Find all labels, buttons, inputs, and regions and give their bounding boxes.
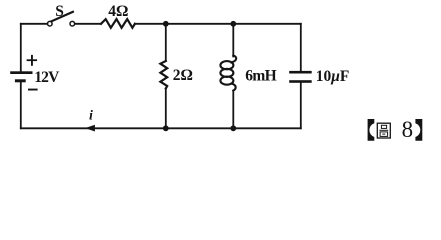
inductor L1 6mH coil bbox=[231, 56, 236, 63]
svg-text:i: i bbox=[89, 109, 93, 124]
capacitor C1 top plate bbox=[289, 71, 312, 74]
svg-text:4Ω: 4Ω bbox=[108, 3, 128, 20]
battery bottom plate (-) bbox=[15, 79, 26, 82]
figure label glyph tu (picture) bbox=[377, 123, 390, 138]
capacitor C1 bottom plate bbox=[289, 80, 312, 83]
svg-text:12V: 12V bbox=[34, 69, 60, 86]
wire branch 2ohm upper bbox=[165, 24, 167, 61]
wire left vertical upper (to battery) bbox=[20, 24, 22, 72]
switch S circles bbox=[48, 21, 53, 26]
svg-text:8: 8 bbox=[402, 117, 414, 142]
node dot bottom B bbox=[230, 125, 236, 131]
svg-text:2Ω: 2Ω bbox=[173, 67, 193, 84]
wire right vertical upper (to capacitor) bbox=[300, 24, 302, 71]
wire left vertical lower (battery to bottom) bbox=[20, 82, 22, 128]
current arrow head i bbox=[85, 125, 95, 132]
wire switch to resistor R1 bbox=[75, 23, 101, 25]
figure label bracket left bbox=[368, 119, 375, 141]
svg-text:10μF: 10μF bbox=[316, 68, 350, 85]
wire branch inductor upper bbox=[232, 24, 234, 57]
battery top plate (+) bbox=[10, 71, 32, 74]
wire top-left to switch bbox=[21, 23, 48, 25]
svg-text:6mH: 6mH bbox=[245, 68, 276, 85]
node dot top A bbox=[163, 21, 169, 27]
wire branch inductor lower bbox=[232, 91, 234, 129]
figure label bracket right bbox=[415, 119, 422, 141]
switch S lever bbox=[52, 12, 73, 21]
battery minus sign bbox=[28, 89, 38, 91]
wire branch 2ohm lower bbox=[165, 89, 167, 129]
wire right vertical lower (capacitor to bottom) bbox=[300, 83, 302, 129]
resistor R2 2ohm zigzag bbox=[160, 61, 167, 89]
node dot top B bbox=[230, 21, 236, 27]
node dot bottom A bbox=[163, 125, 169, 131]
svg-text:S: S bbox=[55, 3, 64, 20]
battery plus sign bbox=[27, 59, 37, 61]
wire bottom bbox=[21, 127, 301, 129]
wire resistor to top-right corner bbox=[135, 23, 301, 25]
resistor R1 4ohm zigzag bbox=[101, 19, 135, 28]
